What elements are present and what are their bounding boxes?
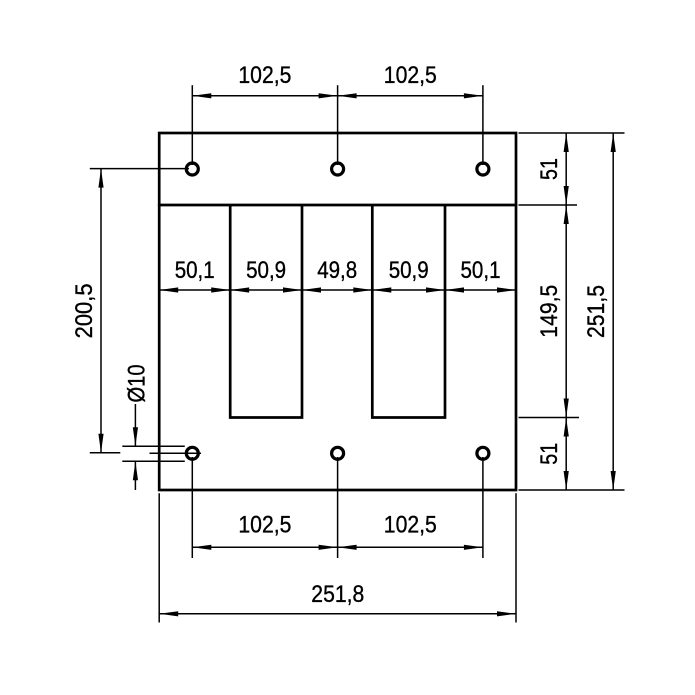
svg-text:251,5: 251,5 bbox=[583, 285, 610, 338]
top extension lines bbox=[191, 85, 193, 165]
svg-text:102,5: 102,5 bbox=[384, 62, 437, 89]
svg-text:149,5: 149,5 bbox=[536, 285, 563, 338]
middle dimension line row bbox=[159, 289, 516, 291]
hole H6 bottom-right bbox=[477, 447, 489, 459]
arrows bottom dim 251,8 bbox=[159, 611, 178, 616]
right extension lines bbox=[519, 132, 625, 134]
svg-text:Ø10: Ø10 bbox=[124, 365, 151, 403]
hole H4 bottom-left bbox=[186, 447, 198, 459]
bottom dimension line 251,8 bbox=[159, 613, 516, 615]
svg-text:251,8: 251,8 bbox=[311, 581, 364, 608]
hole H1 top-left bbox=[186, 163, 198, 175]
arrows top dim 102,5 left segment bbox=[192, 93, 211, 98]
svg-text:102,5: 102,5 bbox=[384, 512, 437, 539]
svg-text:50,9: 50,9 bbox=[246, 257, 286, 284]
svg-text:102,5: 102,5 bbox=[238, 512, 291, 539]
svg-text:50,9: 50,9 bbox=[389, 257, 429, 284]
svg-text:51: 51 bbox=[536, 158, 563, 180]
arrows right dim 149,5 bbox=[564, 205, 569, 224]
bottom corner extension lines bbox=[158, 493, 160, 622]
left dim 200,5: extension lines bbox=[90, 168, 189, 170]
svg-text:50,1: 50,1 bbox=[175, 257, 215, 284]
dia10 leader line bbox=[134, 404, 136, 446]
arrows middle row seg 50,9 bbox=[230, 287, 249, 292]
bottom dimension line 102,5 pair bbox=[192, 546, 483, 548]
svg-text:49,8: 49,8 bbox=[317, 257, 357, 284]
arrows middle row seg 50,9 right bbox=[372, 287, 391, 292]
svg-text:50,1: 50,1 bbox=[461, 257, 501, 284]
top dimension line bbox=[192, 95, 483, 97]
arrows right dim 51 bottom bbox=[564, 418, 569, 437]
arrows middle row seg 49,8 bbox=[302, 287, 321, 292]
plate outline bbox=[159, 133, 516, 490]
yoke separation line bbox=[158, 204, 517, 207]
svg-text:102,5: 102,5 bbox=[238, 62, 291, 89]
right dimension line 251,5 bbox=[612, 133, 614, 490]
arrows right dim 251,5 bbox=[611, 133, 616, 152]
dia10 tangent lines bbox=[122, 445, 185, 447]
hole H3 top-right bbox=[477, 163, 489, 175]
arrows top dim 102,5 right segment bbox=[338, 93, 357, 98]
arrows bottom dim 102,5 left bbox=[192, 545, 211, 550]
svg-text:200,5: 200,5 bbox=[71, 283, 98, 338]
right dimension line 51/149,5/51 bbox=[565, 133, 567, 490]
arrows bottom dim 102,5 right bbox=[338, 545, 357, 550]
arrows middle row seg 50,1 right bbox=[445, 287, 464, 292]
arrows dia10 bbox=[133, 427, 138, 446]
arrows right dim 51 top bbox=[564, 133, 569, 152]
bottom hole extension lines bbox=[191, 457, 193, 558]
arrows middle row seg 50,1 bbox=[159, 287, 178, 292]
slot 1 bbox=[230, 205, 302, 418]
hole H5 bottom-middle bbox=[332, 447, 344, 459]
arrows left dim 200,5 bbox=[98, 169, 103, 188]
svg-text:51: 51 bbox=[536, 443, 563, 465]
hole H2 top-middle bbox=[332, 163, 344, 175]
left dim 200,5: dimension line bbox=[100, 169, 102, 453]
slot 2 bbox=[372, 205, 445, 418]
